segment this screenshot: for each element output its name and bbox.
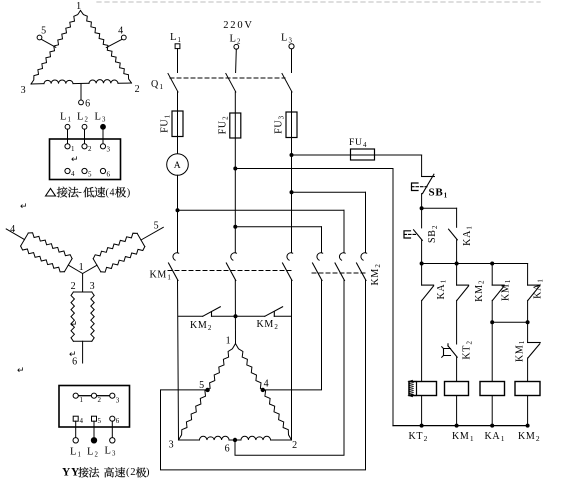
wire Q1 to FU2	[234, 92, 236, 113]
svg-text:3: 3	[169, 440, 175, 451]
svg-text:6: 6	[116, 417, 120, 425]
wire L3 terminal to switch	[291, 49, 293, 73]
wire tap5 to KM2 pole3 (left, down, bottom, up)	[161, 281, 366, 470]
svg-text:↵: ↵	[20, 201, 28, 211]
svg-text:↵: ↵	[71, 154, 79, 164]
svg-text:1: 1	[76, 1, 82, 12]
shorting link terminals 1-2-3	[78, 395, 91, 397]
wire KM1 pole2 to motor terminal 1	[234, 281, 236, 344]
svg-text:220V: 220V	[223, 20, 254, 31]
wire L3 to KM2 pole 3	[292, 191, 366, 193]
svg-text:5: 5	[98, 417, 102, 425]
contact KM1 (branch 3, NO)	[492, 284, 504, 286]
YY winding diagram: upper-left double winding branch to terminal 4	[68, 265, 82, 273]
box terminals 1 2 3	[65, 144, 70, 149]
svg-text:1: 1	[80, 396, 84, 404]
wire L3 to FU4	[292, 154, 351, 156]
YY winding diagram: lower double winding branch to terminal 6	[82, 274, 84, 293]
svg-text:(2: (2	[126, 467, 136, 478]
delta winding diagram: winding side 1-2	[81, 11, 132, 84]
node L1 to KM2 pole2 junction	[176, 208, 180, 212]
wire FU1 to ammeter	[177, 137, 179, 154]
box terminals 4 5 6 (row 2)	[73, 416, 78, 421]
svg-text:A: A	[174, 161, 182, 171]
shorting wire with KM2 aux contacts (star point)	[179, 315, 203, 317]
switch Q1 linkage (dashed)	[170, 77, 285, 79]
svg-text:(4: (4	[106, 188, 116, 199]
fuse FU3	[286, 112, 297, 138]
node L2 control-return junction	[233, 167, 237, 171]
wires from supply into box terminals	[67, 129, 69, 144]
contactor KM1 linkage (dashed)	[168, 270, 291, 272]
svg-text:3: 3	[116, 397, 120, 405]
motor winding 1-2 (right side)	[236, 344, 292, 440]
contact KA1 (branch 4, NO)	[528, 284, 540, 286]
motor winding 1-3 (left side)	[179, 344, 236, 440]
svg-text:↵: ↵	[70, 319, 78, 329]
svg-text:6: 6	[85, 99, 91, 110]
supply terminals above box	[65, 124, 70, 129]
wire SB1 to SB2/KA1 parallel branches	[422, 207, 457, 209]
contactor KM2 pole 2	[339, 253, 345, 260]
svg-text:6: 6	[225, 444, 231, 455]
leads from terminals 4 5 6 to supply L1 L2 L3	[75, 421, 77, 438]
wire L1 terminal to switch	[177, 49, 179, 73]
svg-text:4: 4	[10, 224, 16, 235]
svg-text:4: 4	[80, 417, 84, 425]
wire L2 to KM2 pole 1	[235, 226, 321, 228]
delta winding diagram: winding side 3-2 (coil bumps)	[31, 83, 44, 85]
motor tap 6 node	[233, 438, 237, 442]
contact KM1 (interlock NC, branch 4)	[528, 342, 541, 344]
svg-text:5: 5	[88, 171, 92, 179]
switch Q1 pole 1 blade	[168, 74, 178, 93]
svg-text:2: 2	[71, 281, 77, 292]
node SB1 output junction	[420, 206, 424, 210]
svg-text:4: 4	[118, 26, 124, 37]
wire tap4 to KM2 pole1	[263, 281, 322, 390]
wire FU4 to SB1	[375, 154, 422, 156]
svg-text:↵: ↵	[69, 349, 77, 359]
node L3 to KM2 pole3 junction	[290, 190, 294, 194]
contactor KM1 pole 2	[231, 253, 237, 260]
contactor KM1 pole 3	[287, 253, 293, 260]
wire FU2 down L2	[234, 138, 236, 253]
KM2 shorting contact b	[265, 307, 283, 317]
control rail node row	[422, 263, 528, 265]
motor tap 4 node	[261, 388, 265, 392]
motor tap 5 node	[205, 388, 209, 392]
terminal 5 of delta: circle and lead	[37, 35, 42, 40]
coil KT2 (time relay, hatched)	[409, 382, 437, 396]
contact KA1 (branch 1, NO)	[422, 284, 434, 286]
switch Q1 pole 2 blade	[226, 74, 236, 93]
wire ammeter to node L1a	[177, 175, 179, 252]
terminal box (delta connection)	[50, 139, 121, 180]
terminal 6 of delta: stem and circle	[80, 84, 82, 101]
ammeter A	[167, 154, 189, 176]
contact KM2 (branch 2, NO)	[457, 284, 469, 286]
svg-text:YY: YY	[62, 467, 80, 479]
pushbutton SB1 (NC stop)	[422, 176, 435, 178]
svg-text:5: 5	[41, 26, 47, 37]
wire tap6 to KM2 pole2	[235, 281, 344, 456]
contactor KM2 pole 3	[361, 253, 367, 260]
wire L1 to KM2 pole 2	[178, 209, 345, 211]
wire rail to branch 4	[527, 264, 529, 286]
wire KM1 pole1 to motor terminal 3	[178, 281, 179, 441]
contactor KM2 label (rotated)	[370, 263, 382, 285]
svg-text:2: 2	[292, 440, 298, 451]
svg-text:2: 2	[135, 84, 141, 95]
node L2 to KM2 pole1 junction	[233, 225, 237, 229]
node L3-FU4 junction	[290, 153, 294, 157]
YY winding diagram: upper-right double winding branch to terminal 5	[83, 265, 97, 273]
coil KA1	[480, 382, 505, 396]
svg-text:4: 4	[71, 170, 75, 178]
svg-text:1: 1	[71, 145, 75, 153]
delta winding diagram: winding side 1-3	[31, 11, 81, 85]
svg-text:2: 2	[88, 145, 92, 153]
svg-text:-: -	[79, 187, 83, 198]
svg-text:2: 2	[98, 396, 102, 404]
wire: faint scan remnant along top edge	[97, 1, 540, 3]
svg-text:): )	[127, 188, 131, 199]
fuse FU4	[351, 149, 375, 160]
wire Q1 to FU1	[177, 92, 179, 111]
svg-text:5: 5	[154, 221, 160, 232]
caption: delta connection - low speed (4 pole)	[46, 189, 56, 197]
svg-text:3: 3	[21, 85, 27, 96]
wire KM1 pole3 to motor terminal 2	[291, 281, 293, 441]
svg-text:3: 3	[107, 146, 111, 154]
fuse FU2	[230, 113, 241, 138]
switch Q1 pole 3 blade	[282, 74, 292, 93]
time relay contact KT2 (delayed-close NO)	[447, 344, 449, 346]
fuse FU1	[172, 111, 183, 137]
svg-text:6: 6	[107, 171, 111, 179]
svg-text:1: 1	[79, 262, 85, 273]
wire Q1 to FU3	[291, 92, 293, 112]
terminal box (YY connection)	[59, 386, 130, 428]
pushbutton SB2 (NO start)	[414, 230, 423, 241]
coil KM1	[445, 382, 469, 396]
svg-text:4: 4	[264, 379, 270, 390]
coil KM2	[515, 382, 540, 396]
svg-text:3: 3	[90, 281, 96, 292]
contactor KM2 pole 1	[317, 253, 323, 260]
svg-text:↵: ↵	[17, 365, 25, 375]
KM2 shorting contact a	[203, 307, 221, 317]
terminal 4 of delta: circle and lead	[121, 35, 126, 40]
wire L2 to control return rail	[235, 168, 393, 170]
svg-text:1: 1	[226, 336, 232, 347]
wire L2 terminal to switch	[235, 49, 238, 72]
svg-text:): )	[146, 467, 150, 478]
svg-text:5: 5	[199, 380, 205, 391]
wire FU3 down L3	[291, 138, 293, 253]
control bottom rail	[393, 425, 528, 427]
contactor KM1 pole 1	[173, 253, 179, 260]
box terminals 4 5 6	[65, 168, 70, 173]
relay contact KA1 (seal-in, NO)	[449, 229, 458, 240]
contactor KM2 linkage (dashed)	[312, 272, 366, 274]
motor winding 3-2 (bottom, coil bumps)	[179, 439, 200, 441]
wire branch3-branch4 tie	[492, 321, 527, 323]
node star junction	[234, 314, 238, 318]
